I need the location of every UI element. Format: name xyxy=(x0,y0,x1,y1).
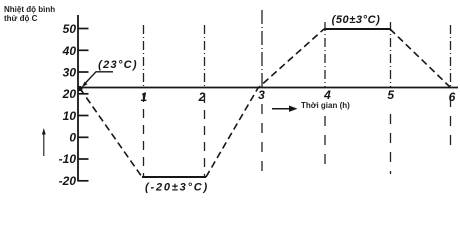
start point dot at 23C xyxy=(77,86,82,91)
svg-text:2: 2 xyxy=(198,90,206,104)
svg-text:-20: -20 xyxy=(59,174,77,188)
y-axis tick 30 xyxy=(78,71,89,73)
y-axis tick 0 xyxy=(78,136,89,138)
gridline hour 1 xyxy=(143,25,145,87)
svg-text:30: 30 xyxy=(63,66,77,80)
y-axis tick -20 xyxy=(78,180,89,182)
y-axis tick 40 xyxy=(78,49,89,51)
svg-text:40: 40 xyxy=(62,44,77,58)
x-axis title arrow xyxy=(272,108,293,110)
gridline hour 4 xyxy=(324,22,326,87)
y-axis xyxy=(77,15,79,182)
svg-text:3: 3 xyxy=(258,88,265,102)
curve segment: descend 50C to 23C xyxy=(390,29,450,87)
svg-text:50: 50 xyxy=(63,22,77,36)
svg-text:(-20±3°C): (-20±3°C) xyxy=(145,182,209,194)
svg-text:20: 20 xyxy=(62,87,77,101)
gridline hour 6 xyxy=(450,25,452,87)
left up arrow xyxy=(43,131,45,156)
y-axis tick -10 xyxy=(78,158,89,160)
curve segment: rise -20C to 50C xyxy=(206,29,324,177)
y-axis tick 10 xyxy=(78,115,89,117)
svg-text:Thời gian (h): Thời gian (h) xyxy=(301,101,350,110)
svg-text:thử độ C: thử độ C xyxy=(4,14,38,23)
leader arrowhead xyxy=(82,82,88,88)
svg-text:4: 4 xyxy=(323,88,331,102)
svg-text:-10: -10 xyxy=(59,152,77,166)
curve segment: descend 23C to -20C xyxy=(80,89,142,178)
svg-text:6: 6 xyxy=(449,90,456,104)
gridline hour 2 xyxy=(204,25,206,87)
y-axis tick 50 xyxy=(78,28,89,30)
gridline hour 5 xyxy=(390,22,392,87)
svg-text:(23°C): (23°C) xyxy=(98,59,138,71)
gridline hour 3 xyxy=(261,10,263,87)
y-axis tick 20 xyxy=(78,93,89,95)
svg-text:1: 1 xyxy=(141,90,148,104)
curve segment: hold 50C (solid) xyxy=(324,28,390,30)
svg-text:Nhiệt độ bình: Nhiệt độ bình xyxy=(4,5,55,14)
curve segment: hold -20C (solid) xyxy=(142,176,206,178)
x-axis xyxy=(78,87,458,89)
svg-text:(50±3°C): (50±3°C) xyxy=(332,14,381,26)
leader line for (23C) xyxy=(85,72,114,84)
svg-text:10: 10 xyxy=(63,109,77,123)
svg-text:0: 0 xyxy=(69,131,76,145)
svg-text:5: 5 xyxy=(387,88,394,102)
